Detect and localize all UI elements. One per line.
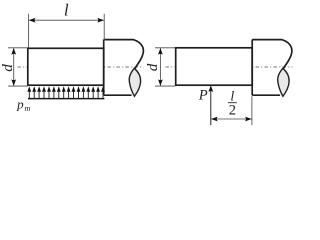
- label l: [64, 1, 69, 20]
- dimension l/2 (bottom): [211, 96, 252, 125]
- svg-text:P: P: [198, 88, 208, 104]
- small-diameter shaft body (right): [176, 48, 253, 85]
- label p_m: [16, 96, 30, 113]
- label l/2 fraction: [228, 90, 237, 119]
- svg-text:d: d: [0, 64, 16, 72]
- label d (left): [0, 64, 16, 72]
- svg-text:2: 2: [229, 102, 236, 118]
- label d (right): [144, 63, 161, 71]
- svg-text:p: p: [16, 96, 24, 111]
- break lens (left): [129, 68, 140, 96]
- small-diameter shaft body (left): [28, 48, 104, 85]
- svg-text:m: m: [25, 104, 31, 113]
- dimension l (top): [29, 14, 105, 48]
- large-diameter hub section (left): [104, 40, 144, 96]
- svg-text:l: l: [64, 1, 69, 20]
- label P: [198, 88, 208, 104]
- dimension d (left figure): [8, 48, 28, 86]
- centerline (right shaft axis): [166, 66, 293, 68]
- distributed load arrows (p): [27, 86, 105, 98]
- large-diameter hub section (right): [252, 40, 292, 96]
- force P arrow: [208, 85, 213, 125]
- dimension d (right figure): [155, 48, 175, 86]
- break lens (right): [278, 68, 289, 96]
- centerline (left shaft axis): [18, 66, 144, 68]
- distributed load baseline: [28, 98, 104, 100]
- svg-text:d: d: [144, 63, 161, 71]
